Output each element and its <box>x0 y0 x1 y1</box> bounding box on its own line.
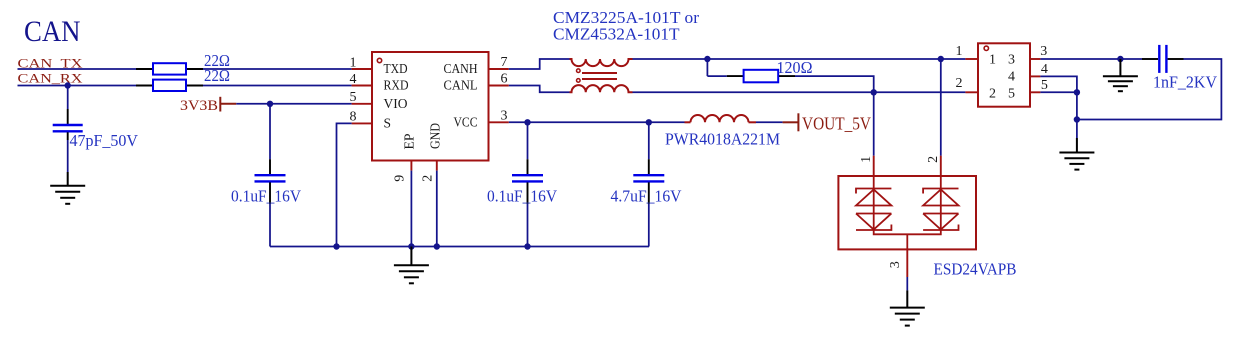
svg-text:4: 4 <box>350 72 357 87</box>
capacitor C1 0.1uF_16V <box>255 159 286 204</box>
ESD internal common wire <box>874 230 941 249</box>
junction CANH 120ohm <box>704 56 710 62</box>
junction 3V3B to C1 <box>267 101 273 107</box>
wire L1 to VOUT_5V <box>756 121 783 123</box>
connector pin 1 stub <box>965 58 978 60</box>
svg-text:4: 4 <box>1041 62 1048 77</box>
ground under connector <box>1059 138 1094 170</box>
svg-text:47pF_50V: 47pF_50V <box>70 131 139 150</box>
junction CANL ESD <box>871 89 877 95</box>
junction rail pin8 <box>333 243 339 249</box>
wire ESD pin1 drop <box>873 92 875 155</box>
capacitor C5 1nF_2KV <box>1142 45 1184 73</box>
wire 120ohm to CANL junction <box>795 76 874 92</box>
wire connector pin4 <box>1040 76 1077 119</box>
wire CANH after choke <box>633 58 941 60</box>
wire pin6 to choke <box>509 86 570 93</box>
wire C2 to rail <box>527 204 529 247</box>
connector pin 5 stub <box>1030 91 1040 93</box>
resistor R 120ohm <box>727 70 795 83</box>
svg-text:5: 5 <box>350 90 357 105</box>
wire 3V3B down to C1 <box>269 104 271 159</box>
ESD pin 1 stub <box>873 156 875 176</box>
svg-text:3: 3 <box>888 261 903 268</box>
resistor R 22ohm top <box>136 63 203 74</box>
wire VCC down to C2 <box>527 122 529 159</box>
svg-text:2: 2 <box>420 175 435 182</box>
junction pin4 pin5 <box>1074 89 1080 95</box>
svg-text:3: 3 <box>501 108 508 123</box>
pin 8 S stub <box>352 122 372 124</box>
wire pin7 to choke <box>509 59 570 69</box>
capacitor C2 0.1uF_16V <box>512 159 543 204</box>
pin 1 indicator J1 <box>984 46 988 50</box>
inductor L1 PWR4018A221M <box>685 115 757 122</box>
wire GND to rail <box>436 171 438 247</box>
wire RX to pin4 <box>203 85 352 87</box>
capacitor C3 4.7uF_16V <box>633 159 664 204</box>
svg-text:6: 6 <box>501 72 508 87</box>
wire C1 to ground rail <box>269 204 271 247</box>
pin 6 CANL stub <box>489 85 509 87</box>
svg-text:3: 3 <box>1008 53 1015 68</box>
junction RX to 47pF <box>65 82 71 88</box>
svg-text:VOUT_5V: VOUT_5V <box>802 114 871 134</box>
svg-text:CAN: CAN <box>24 15 81 48</box>
ground near 1nF <box>1103 59 1138 91</box>
ESD pin 3 stub <box>906 249 908 277</box>
wire CAN_TX left segment <box>18 68 137 70</box>
pin 9 EP stub <box>410 161 412 171</box>
svg-text:120Ω: 120Ω <box>777 58 813 77</box>
svg-text:3: 3 <box>1040 44 1047 59</box>
wire CANL after choke <box>633 91 966 93</box>
junction VCC C3 <box>646 119 652 125</box>
ground under 47pF <box>50 172 85 204</box>
wire CANH to connector pin1 <box>941 58 966 60</box>
svg-text:7: 7 <box>501 55 508 70</box>
wire connector pin3 right <box>1040 58 1142 60</box>
wire C 47pF to ground <box>67 140 69 172</box>
svg-text:1nF_2KV: 1nF_2KV <box>1153 72 1217 91</box>
svg-text:4.7uF_16V: 4.7uF_16V <box>611 186 682 205</box>
svg-text:9: 9 <box>393 175 408 182</box>
svg-text:TXD: TXD <box>384 61 408 76</box>
svg-text:CANH: CANH <box>444 61 478 76</box>
pin 2 GND stub <box>436 161 438 171</box>
svg-text:CAN_RX: CAN_RX <box>18 72 83 86</box>
ground under ESD <box>890 290 925 325</box>
svg-text:PWR4018A221M: PWR4018A221M <box>665 129 780 148</box>
resistor R 22ohm bottom <box>136 80 203 91</box>
svg-text:1: 1 <box>956 44 963 59</box>
svg-text:1: 1 <box>350 55 357 70</box>
pin 3 VCC stub <box>489 121 509 123</box>
svg-text:VCC: VCC <box>454 115 478 130</box>
connector pin 3 stub <box>1030 58 1040 60</box>
junction rail EP <box>408 243 414 249</box>
wire connector pin5 <box>1040 91 1077 93</box>
choke polarity dot top <box>577 69 581 73</box>
pin 7 CANH stub <box>489 68 509 70</box>
svg-text:1: 1 <box>859 156 874 163</box>
svg-text:S: S <box>384 116 392 131</box>
pin 4 RXD stub <box>352 85 372 87</box>
svg-text:VIO: VIO <box>384 96 408 111</box>
wire ESD pin2 drop <box>940 59 942 156</box>
pin 5 VIO stub <box>352 103 372 105</box>
junction rail C2 <box>524 243 530 249</box>
svg-text:CMZ4532A-101T: CMZ4532A-101T <box>553 24 680 43</box>
connector J1 body <box>978 43 1030 106</box>
choke core lines <box>582 73 617 79</box>
pin 1 TXD stub <box>352 68 372 70</box>
TVS diode pair right <box>923 176 958 230</box>
svg-text:0.1uF_16V: 0.1uF_16V <box>231 186 301 205</box>
wire RX down to C 47pF <box>67 86 69 110</box>
power port VOUT_5V <box>783 113 872 133</box>
wire ESD pin3 to ground <box>906 277 908 290</box>
ESD pin 2 stub <box>940 156 942 176</box>
svg-text:1: 1 <box>989 53 996 68</box>
capacitor C 47pF_50V <box>53 109 83 140</box>
wire 120ohm left lead wire <box>707 75 726 77</box>
junction pin3 ground <box>1117 56 1123 62</box>
common-mode choke T1 top winding <box>570 59 633 66</box>
wire VCC rail <box>509 121 685 123</box>
svg-text:GND: GND <box>428 123 443 149</box>
svg-text:0.1uF_16V: 0.1uF_16V <box>487 186 557 205</box>
common-mode choke T1 bottom winding <box>570 85 633 92</box>
wire EP to rail <box>410 171 412 247</box>
TVS diode pair left <box>856 176 891 230</box>
wire C3 to rail <box>648 204 650 247</box>
svg-text:3V3B: 3V3B <box>180 98 218 114</box>
wire 1nF loop right and back <box>1077 59 1222 120</box>
wire CAN_RX left segment <box>18 85 137 87</box>
junction CANH connector <box>938 56 944 62</box>
junction loop ground <box>1074 116 1080 122</box>
pin 1 indicator U1 <box>377 58 381 62</box>
svg-text:RXD: RXD <box>384 78 409 93</box>
svg-text:ESD24VAPB: ESD24VAPB <box>934 259 1017 278</box>
wire ground rail <box>270 246 649 248</box>
wire pin8 to ground rail <box>337 123 352 246</box>
svg-text:2: 2 <box>926 156 941 163</box>
transceiver IC U1 body <box>372 52 489 161</box>
choke polarity dot bottom <box>577 79 581 83</box>
svg-text:4: 4 <box>1008 70 1015 85</box>
wire 3V3B to pin5 <box>236 103 351 105</box>
svg-text:EP: EP <box>402 134 417 150</box>
connector pin 2 stub <box>965 91 978 93</box>
connector pin 4 stub <box>1030 75 1040 77</box>
wire VCC down to C3 <box>648 122 650 159</box>
svg-text:2: 2 <box>956 76 963 91</box>
junction VCC C2 <box>524 119 530 125</box>
svg-text:8: 8 <box>350 110 357 125</box>
svg-text:CANL: CANL <box>444 78 478 93</box>
svg-text:2: 2 <box>989 86 996 101</box>
junction rail GND <box>434 243 440 249</box>
svg-text:5: 5 <box>1041 78 1048 93</box>
wire loop junction to ground <box>1076 120 1078 139</box>
wire TX to pin1 <box>203 68 352 70</box>
power port 3V3B <box>180 97 236 114</box>
ground under U1 <box>394 247 429 284</box>
svg-text:5: 5 <box>1008 86 1015 101</box>
ESD device D1 body <box>838 176 976 249</box>
wire CANH down to 120ohm <box>706 59 708 76</box>
